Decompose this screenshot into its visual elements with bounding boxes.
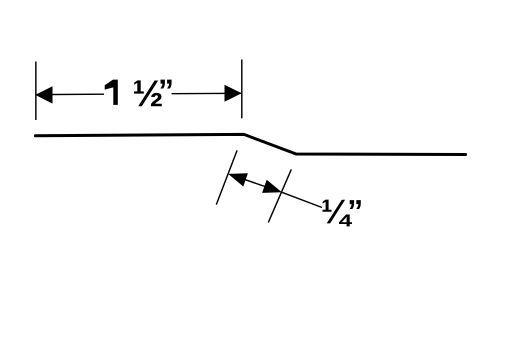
extension line left <box>35 62 37 121</box>
step arrowhead lower-right <box>262 180 282 193</box>
step arrowhead upper-left <box>228 173 248 186</box>
dimension line left segment <box>36 93 104 95</box>
dimension label 1 1/2 inch <box>105 80 172 107</box>
tick mark 2 <box>268 169 291 222</box>
step dimension line <box>242 179 268 188</box>
dimension line right segment <box>172 92 242 94</box>
tick mark 1 <box>216 150 237 204</box>
dimension label 1/4 inch <box>323 200 361 227</box>
arrowhead left <box>35 86 52 103</box>
profile line with step <box>35 134 465 154</box>
leader line <box>282 192 322 207</box>
arrowhead right <box>225 85 242 102</box>
extension line right <box>241 60 243 119</box>
